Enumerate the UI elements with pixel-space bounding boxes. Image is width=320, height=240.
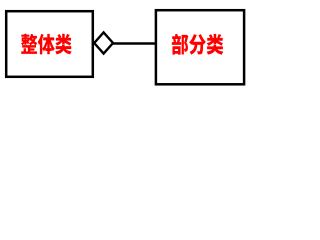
aggregation diamond (hollow) at whole-class end (94, 32, 113, 53)
label "部分类" (part class) (172, 34, 224, 55)
label "整体类" (whole class) (21, 34, 72, 55)
association wire (horizontal connector line) (111, 42, 156, 45)
part-class box (right rectangle) (156, 10, 244, 84)
whole-class box (left rectangle) (6, 11, 93, 77)
